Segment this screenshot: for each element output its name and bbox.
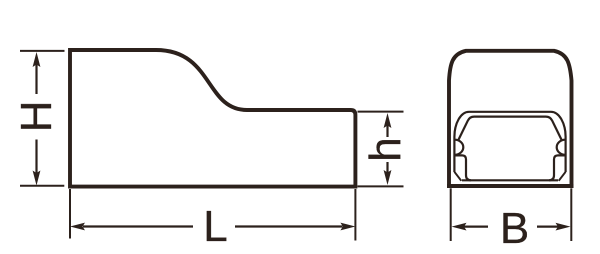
duct cover outer line (454, 112, 565, 172)
H dimension line upper segment (35, 64, 37, 94)
right cover foot diagonal (559, 172, 566, 181)
H arrowhead down (33, 171, 41, 186)
front view baseline (447, 184, 574, 188)
H bottom extension line (20, 185, 64, 187)
svg-text:h: h (361, 137, 410, 161)
base inner bottom line (462, 179, 558, 181)
H dimension line lower segment (35, 140, 37, 174)
H top extension line (20, 50, 65, 52)
L arrowhead left (70, 223, 85, 231)
L dimension line right segment (235, 225, 343, 227)
L left extension line (69, 189, 71, 239)
B right extension line (570, 188, 572, 241)
B arrowhead left (452, 223, 467, 231)
left latch bump (455, 140, 464, 155)
B left extension line (450, 188, 452, 241)
h top extension line (358, 111, 404, 113)
B dimension line left segment (464, 226, 488, 228)
L right extension line (354, 189, 356, 241)
front view outer outline (449, 51, 572, 187)
side view outline (70, 50, 355, 187)
left cover foot diagonal (454, 172, 461, 181)
H arrowhead up (33, 52, 41, 67)
h dimension line upper segment (386, 125, 388, 137)
h bottom extension line (358, 185, 404, 187)
svg-text:L: L (203, 202, 227, 251)
right base wall step (549, 155, 565, 180)
L dimension line left segment (83, 225, 193, 227)
svg-text:H: H (12, 100, 61, 132)
h dimension line lower segment (386, 162, 388, 173)
B dimension line right segment (537, 226, 558, 228)
svg-text:B: B (500, 204, 529, 253)
B arrowhead right (556, 223, 571, 231)
h arrowhead down (384, 170, 392, 185)
h arrowhead up (384, 113, 392, 128)
right latch bump (557, 140, 566, 155)
L arrowhead right (340, 223, 355, 231)
left base wall step (455, 155, 471, 180)
duct cover inner line (458, 117, 562, 141)
